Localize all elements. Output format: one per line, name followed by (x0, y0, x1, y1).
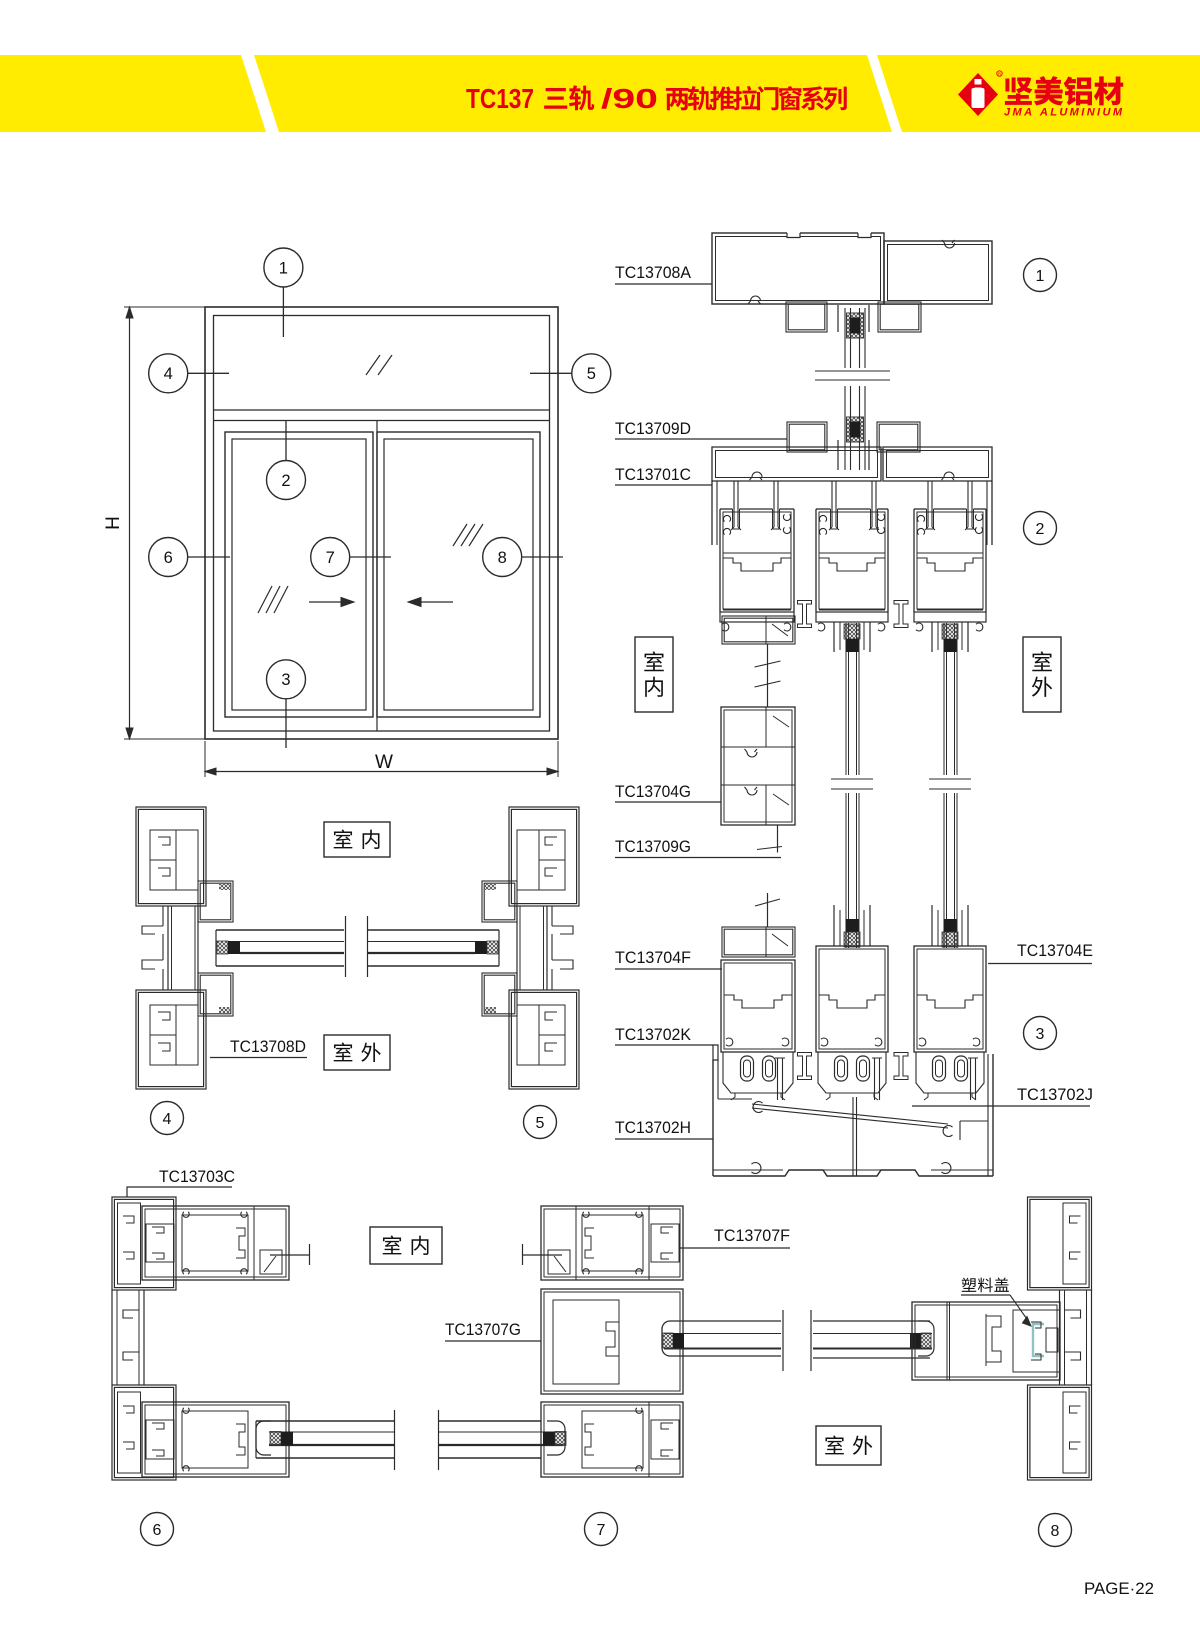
svg-text:6: 6 (164, 549, 173, 567)
svg-text:TC13702J: TC13702J (1017, 1086, 1093, 1104)
svg-text:R: R (998, 72, 1001, 77)
svg-text:TC13708D: TC13708D (230, 1038, 306, 1056)
svg-text:4: 4 (163, 1111, 172, 1128)
svg-text:7: 7 (326, 549, 335, 567)
svg-text:8: 8 (1051, 1523, 1060, 1540)
svg-text:5: 5 (536, 1115, 545, 1132)
svg-text:TC13707F: TC13707F (714, 1227, 790, 1245)
svg-text:TC13702H: TC13702H (615, 1119, 691, 1137)
svg-text:TC13709G: TC13709G (615, 838, 691, 856)
svg-text:4: 4 (164, 365, 173, 383)
svg-text:H: H (103, 516, 124, 530)
svg-text:PAGE·22: PAGE·22 (1084, 1579, 1154, 1598)
svg-text:1: 1 (279, 259, 288, 277)
svg-text:TC13709D: TC13709D (615, 420, 691, 438)
svg-text:W: W (375, 752, 393, 773)
svg-text:2: 2 (1036, 521, 1045, 538)
svg-text:6: 6 (153, 1522, 162, 1539)
svg-text:5: 5 (587, 365, 596, 383)
svg-text:/90: /90 (601, 83, 658, 114)
svg-text:TC13707G: TC13707G (445, 1321, 521, 1339)
svg-text:TC13704E: TC13704E (1017, 942, 1093, 960)
svg-text:3: 3 (281, 671, 290, 689)
svg-text:TC13702K: TC13702K (615, 1026, 691, 1044)
svg-text:2: 2 (281, 472, 290, 490)
svg-text:TC13703C: TC13703C (159, 1168, 235, 1186)
svg-text:TC13701C: TC13701C (615, 466, 691, 484)
svg-text:TC13704F: TC13704F (615, 949, 691, 967)
svg-text:TC13708A: TC13708A (615, 264, 691, 282)
svg-text:TC13704G: TC13704G (615, 783, 691, 801)
svg-text:7: 7 (597, 1522, 606, 1539)
svg-text:TC137: TC137 (466, 83, 534, 114)
svg-text:3: 3 (1036, 1026, 1045, 1043)
svg-text:1: 1 (1036, 268, 1045, 285)
svg-text:8: 8 (498, 549, 507, 567)
